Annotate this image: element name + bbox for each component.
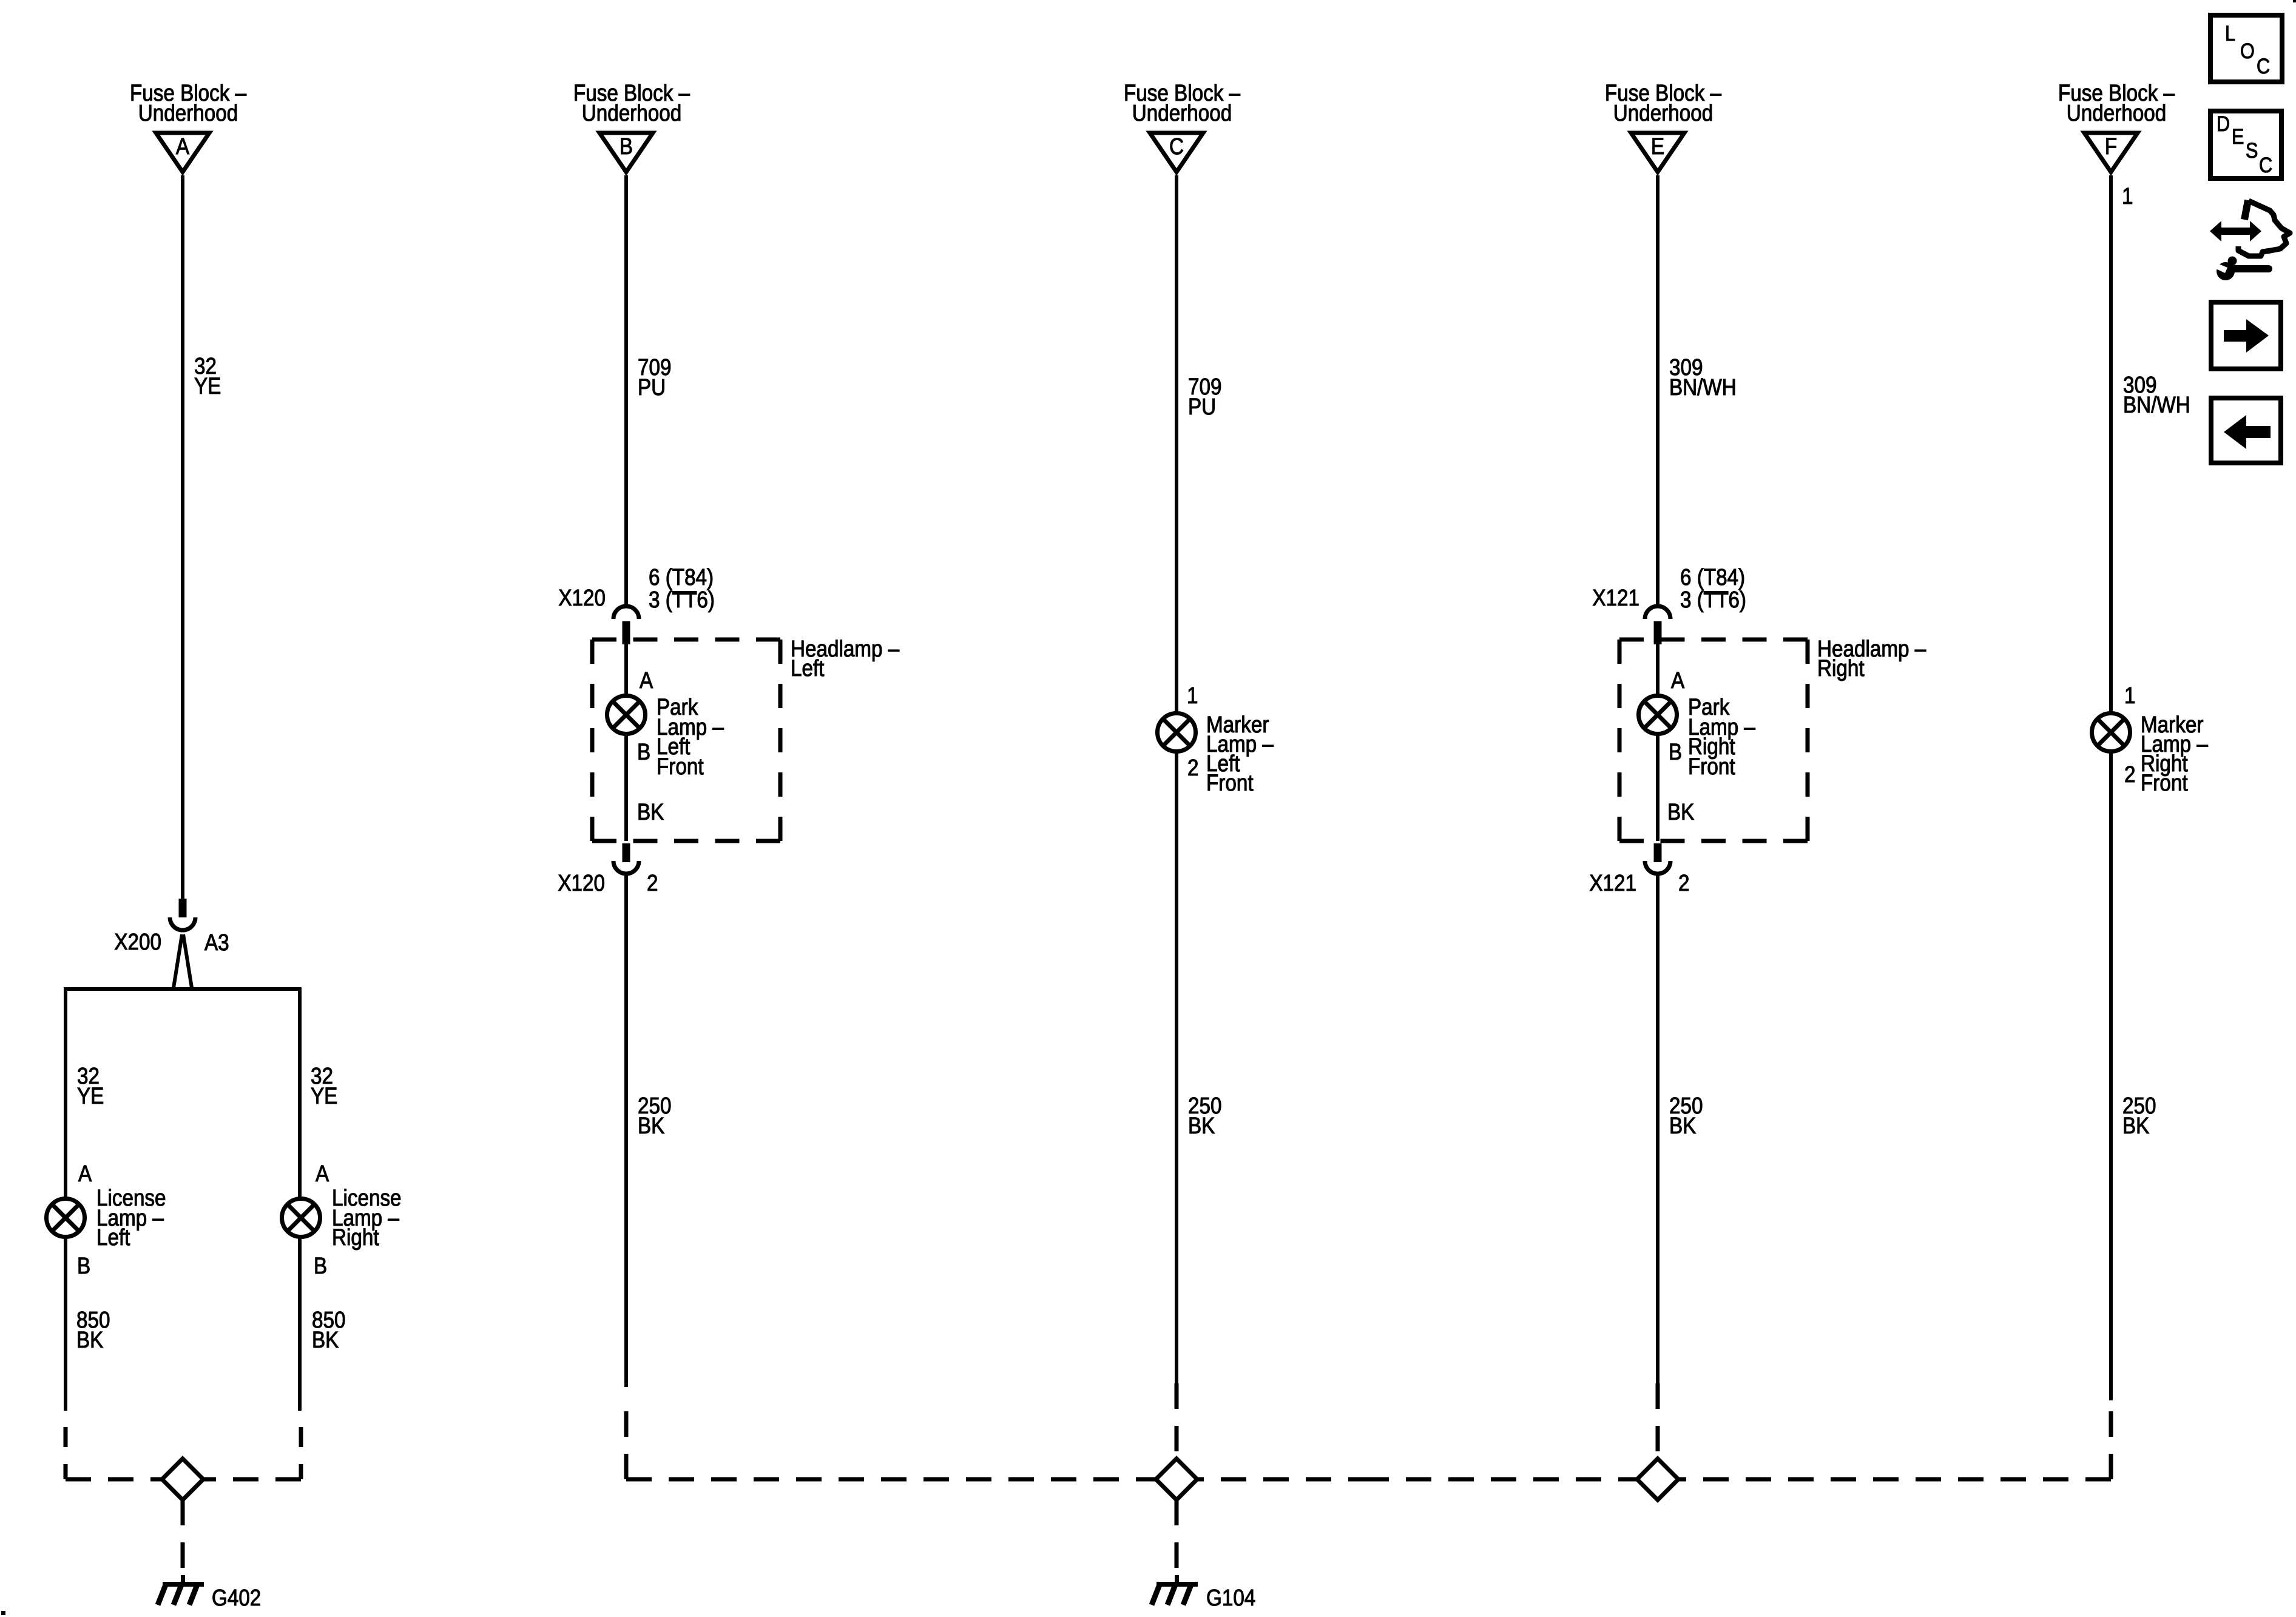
marker lamp right front (bulb) [2092,714,2130,752]
svg-text:Front: Front [1688,754,1735,780]
wire 32 YE from fuse block A to splice X200 [181,175,184,899]
svg-text:C: C [2259,153,2272,177]
svg-text:C: C [1169,133,1184,160]
svg-text:Underhood: Underhood [1132,100,1232,126]
license lamp left label [96,1185,166,1251]
connector X120 female terminal (top) [613,606,639,619]
svg-text:BK: BK [76,1327,104,1353]
wire 309 BN/WH from fuse block F to marker lamp right [2109,175,2113,1400]
svg-text:3 (TT6): 3 (TT6) [1680,587,1746,613]
wire label 850 BK (left) [76,1307,110,1353]
fuse block B label "Fuse Block - Underhood" [573,80,690,126]
marker lamp right front label [2141,712,2208,796]
ground wire 250 BK dashed bus (B to F) [626,1403,2111,1479]
svg-text:E: E [2232,124,2244,148]
electrical information / tools icon [2210,200,2290,280]
connector X200 female terminal [170,917,195,930]
svg-text:BK: BK [1669,1113,1697,1139]
svg-text:X120: X120 [558,585,606,611]
park lamp right front (bulb) [1639,696,1677,734]
svg-text:A: A [1671,667,1684,694]
svg-text:2: 2 [2124,761,2135,788]
license lamp left (bulb) [47,1199,85,1237]
svg-text:B: B [1669,739,1682,765]
connector X120 male pin (top) [623,621,630,644]
splice node license lamp ground splice (diamond) [162,1459,203,1500]
svg-text:B: B [637,739,650,765]
headlamp left assembly dashed box [592,640,780,841]
wire label 250 BK (F) [2122,1093,2156,1139]
svg-text:Left: Left [791,655,825,681]
svg-text:Front: Front [1206,770,1254,796]
svg-text:Underhood: Underhood [138,100,238,126]
svg-text:Right: Right [1817,655,1865,681]
headlamp left label [791,636,899,681]
svg-text:E: E [1651,133,1664,160]
splice V from X200 to license lamp bus [174,934,192,988]
wire label 250 BK (B) [638,1093,671,1139]
svg-text:C: C [2257,54,2270,78]
DESC navigation box icon [2210,111,2281,178]
svg-text:S: S [2246,138,2258,162]
svg-text:Left: Left [96,1224,130,1251]
license lamp right (bulb) [282,1199,320,1237]
marker lamp left front (bulb) [1158,714,1196,752]
svg-text:X121: X121 [1592,585,1639,611]
svg-text:BK: BK [637,799,664,825]
svg-text:BN/WH: BN/WH [1669,374,1737,400]
page corner mark (bottom left) [1,1611,5,1615]
svg-text:A: A [316,1161,329,1187]
wire 32 YE license lamp branch bus [66,989,300,1411]
fuse block F output triangle [2084,133,2138,172]
svg-text:X120: X120 [558,870,605,896]
fuse block B output triangle [599,133,653,172]
svg-text:3 (TT6): 3 (TT6) [649,587,715,613]
wire label 32 YE (circuit A) [194,353,221,399]
wire 250 BK from X121 to ground bus [1656,876,1660,1383]
connector X121 male pin (bottom) [1654,843,1662,862]
ground G402 symbol [158,1575,204,1605]
wire 250 BK from X120 to ground bus [624,876,628,1387]
svg-text:G402: G402 [212,1585,261,1611]
ground wire dashed from marker lamp left to splice [1175,1383,1179,1459]
splice node ground bus splice at C (diamond) [1156,1459,1197,1500]
svg-text:B: B [314,1253,327,1279]
svg-text:1: 1 [1187,683,1198,709]
svg-text:Underhood: Underhood [1613,100,1713,126]
connector X121 male pin (top) [1654,621,1662,644]
svg-text:BK: BK [2122,1113,2150,1139]
svg-text:BN/WH: BN/WH [2123,392,2190,418]
back arrow navigation icon [2211,398,2281,463]
svg-text:D: D [2217,112,2230,135]
wire label 309 BN/WH (F) [2123,372,2190,418]
svg-text:X121: X121 [1589,870,1636,896]
fuse block E output triangle [1631,133,1684,172]
wire inside headlamp left [624,644,628,841]
svg-text:1: 1 [2122,183,2133,209]
svg-text:A: A [78,1161,92,1187]
park lamp left front (bulb) [607,696,646,734]
svg-text:BK: BK [1188,1113,1215,1139]
park lamp left front label [657,694,724,780]
LOC navigation box icon [2210,15,2282,82]
ground wire dashed below splice to G104 [1175,1500,1179,1581]
svg-text:YE: YE [311,1083,337,1109]
pin label 3 (TT6) (X121) [1680,587,1746,613]
svg-text:YE: YE [194,373,221,399]
fuse block A label "Fuse Block - Underhood" [130,80,246,126]
wire label 309 BN/WH (E) [1669,354,1737,400]
connector X120 female terminal (bottom) [613,861,639,874]
svg-text:2: 2 [1678,870,1689,896]
headlamp right label [1817,636,1926,681]
connector X120 male pin (bottom) [623,843,630,862]
fuse block A output triangle [156,133,209,172]
svg-text:B: B [620,133,633,160]
svg-text:O: O [2240,39,2255,62]
svg-text:BK: BK [638,1113,665,1139]
svg-text:PU: PU [638,374,666,400]
wire label 250 BK (E) [1669,1093,1703,1139]
wire label 250 BK (C) [1188,1093,1221,1139]
wire label 709 PU (B) [638,354,671,400]
page corner mark (top right) [2293,0,2296,2]
fuse block F label "Fuse Block - Underhood" [2058,80,2175,126]
park lamp right front label [1688,694,1755,780]
wire label 32 YE (right license branch) [311,1063,337,1109]
svg-text:Underhood: Underhood [2067,100,2166,126]
svg-text:YE: YE [77,1083,104,1109]
fuse block C label "Fuse Block - Underhood" [1124,80,1240,126]
svg-text:PU: PU [1188,394,1216,420]
svg-text:Front: Front [2141,770,2188,796]
ground wire dashed from park lamp right to splice [1656,1383,1660,1459]
forward arrow navigation icon [2211,302,2281,369]
svg-text:Front: Front [657,754,704,780]
wire label 850 BK (right) [312,1307,345,1353]
wire 309 BN/WH from fuse block E to X121 [1656,175,1660,604]
wire 709 PU from fuse block B to X120 [624,175,628,604]
svg-text:F: F [2105,133,2117,160]
svg-text:L: L [2225,21,2235,45]
ground wire 850 BK dashed (license lamps to G402) [66,1427,301,1479]
svg-text:A3: A3 [204,930,229,956]
marker lamp left front label [1206,712,1274,796]
svg-text:2: 2 [647,870,658,896]
svg-text:G104: G104 [1206,1585,1255,1611]
license lamp right label [332,1185,402,1251]
ground G104 symbol [1152,1575,1198,1605]
ground wire dashed below splice to G402 [181,1500,185,1581]
pin label 3 (TT6) [649,587,715,613]
connector X121 female terminal (bottom) [1645,861,1670,874]
connector X200 pin A3 (male pin) [179,899,187,917]
svg-text:BK: BK [1667,799,1695,825]
wire inside headlamp right [1656,644,1660,841]
splice node ground bus splice at E (diamond) [1637,1459,1678,1500]
svg-text:1: 1 [2124,683,2135,709]
svg-text:A: A [176,133,189,160]
svg-text:Right: Right [332,1224,379,1251]
svg-text:2: 2 [1187,755,1198,781]
svg-text:Underhood: Underhood [582,100,681,126]
wire label 709 PU (C) [1188,374,1221,420]
svg-text:B: B [77,1253,90,1279]
fuse block E label "Fuse Block - Underhood" [1605,80,1721,126]
svg-text:X200: X200 [114,929,161,955]
fuse block C output triangle [1150,133,1203,172]
wire 709 PU from fuse block C to marker lamp [1175,175,1178,1383]
headlamp right assembly dashed box [1619,640,1808,841]
wire label 32 YE (left license branch) [77,1063,104,1109]
connector X121 female terminal (top) [1645,606,1670,619]
svg-text:BK: BK [312,1327,339,1353]
svg-text:A: A [640,667,653,694]
